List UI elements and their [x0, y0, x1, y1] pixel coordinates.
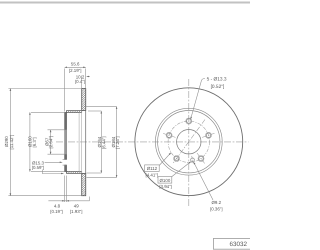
bolt circle (dash-dot)	[168, 121, 209, 162]
set screw hole	[191, 158, 195, 162]
svg-text:55.6: 55.6	[71, 62, 80, 67]
svg-text:[2.64"]: [2.64"]	[48, 136, 53, 149]
svg-text:Ø9.2: Ø9.2	[212, 200, 222, 205]
label Ø164	[97, 136, 106, 149]
lug hole bottom-right	[198, 156, 204, 162]
lug hole edges in flange	[63, 159, 67, 165]
dim 4.8 / 49 bottom	[48, 176, 89, 203]
part number box	[213, 239, 253, 250]
svg-text:[3.94"]: [3.94"]	[159, 184, 172, 189]
disc inner junction edge	[81, 111, 83, 174]
svg-text:[0.52"]: [0.52"]	[211, 84, 225, 90]
leader to drum wall bottom	[42, 170, 63, 174]
dim Ø290 vertical line	[8, 89, 81, 196]
axis centerline	[56, 141, 249, 143]
svg-text:[0.4"]: [0.4"]	[75, 79, 85, 84]
lug hole left	[166, 132, 172, 138]
Ø290 bottom extension	[8, 195, 81, 197]
svg-text:[1.93"]: [1.93"]	[70, 209, 83, 214]
lug hole top	[186, 118, 192, 124]
dim 10.2 arrows	[82, 76, 90, 89]
svg-text:[0.59"]: [0.59"]	[32, 165, 45, 170]
flange lower segment below lug hole (hatched)	[65, 165, 67, 171]
svg-text:[2.19"]: [2.19"]	[69, 68, 82, 73]
center bore circle	[177, 130, 201, 154]
Ø160 top extension	[31, 111, 65, 113]
Ø290 top extension	[8, 88, 81, 90]
dim Ø184 vertical line	[84, 107, 116, 178]
svg-text:Ø112: Ø112	[147, 166, 158, 171]
lug hole bottom-left	[174, 156, 180, 162]
drum interior far edge	[78, 113, 80, 172]
bore cylinder edges	[65, 130, 67, 155]
flange upper segment (hatched)	[65, 113, 67, 130]
svg-text:[7.24"]: [7.24"]	[115, 136, 120, 149]
dim Ø67 vertical line	[48, 130, 65, 154]
svg-text:[4.41"]: [4.41"]	[146, 172, 159, 177]
drum outer ring	[158, 111, 220, 173]
label Ø67	[45, 136, 54, 149]
svg-text:[11.42"]: [11.42"]	[9, 135, 14, 150]
svg-text:Ø100: Ø100	[160, 178, 171, 183]
drum wall top (hatched)	[67, 111, 82, 113]
label Ø100 boxed with leader	[158, 177, 172, 184]
svg-text:4.8: 4.8	[54, 204, 61, 209]
lug hole right	[206, 132, 212, 138]
label Ø160	[28, 136, 37, 148]
svg-text:5 - Ø13.3: 5 - Ø13.3	[207, 77, 227, 83]
label Ø112 boxed with leader	[145, 165, 160, 172]
radial tick right hole	[202, 133, 214, 137]
radial tick left hole	[163, 133, 175, 137]
radial centerline through 126 deg hole (full diagonal)	[173, 120, 205, 164]
svg-text:[6.3"]: [6.3"]	[32, 137, 37, 147]
set screw radial tick	[192, 156, 194, 163]
dim Ø160 vertical line	[30, 112, 65, 171]
friction inner ring	[155, 108, 222, 175]
svg-text:[6.44"]: [6.44"]	[101, 136, 106, 149]
svg-text:63032: 63032	[229, 241, 247, 248]
top border line	[0, 2, 250, 4]
label Ø290	[4, 135, 14, 150]
svg-text:[0.19"]: [0.19"]	[50, 209, 63, 214]
disc inboard face full edge	[85, 89, 87, 196]
drum wall bottom (hatched)	[67, 172, 82, 174]
svg-text:[0.36"]: [0.36"]	[210, 207, 223, 212]
vertical centerline	[188, 79, 190, 207]
disc slab top (hatched)	[65, 89, 86, 196]
label Ø184	[111, 136, 120, 149]
dim 55.6 horizontal	[65, 67, 86, 111]
flange mid segment between bore and lug hole (hatched)	[65, 155, 67, 160]
dim Ø164 vertical line	[87, 111, 102, 173]
outer circle OD	[135, 88, 243, 196]
radial tick bottom-right hole	[197, 153, 205, 164]
svg-text:49: 49	[74, 204, 79, 209]
disc slab bottom (hatched)	[82, 173, 86, 195]
